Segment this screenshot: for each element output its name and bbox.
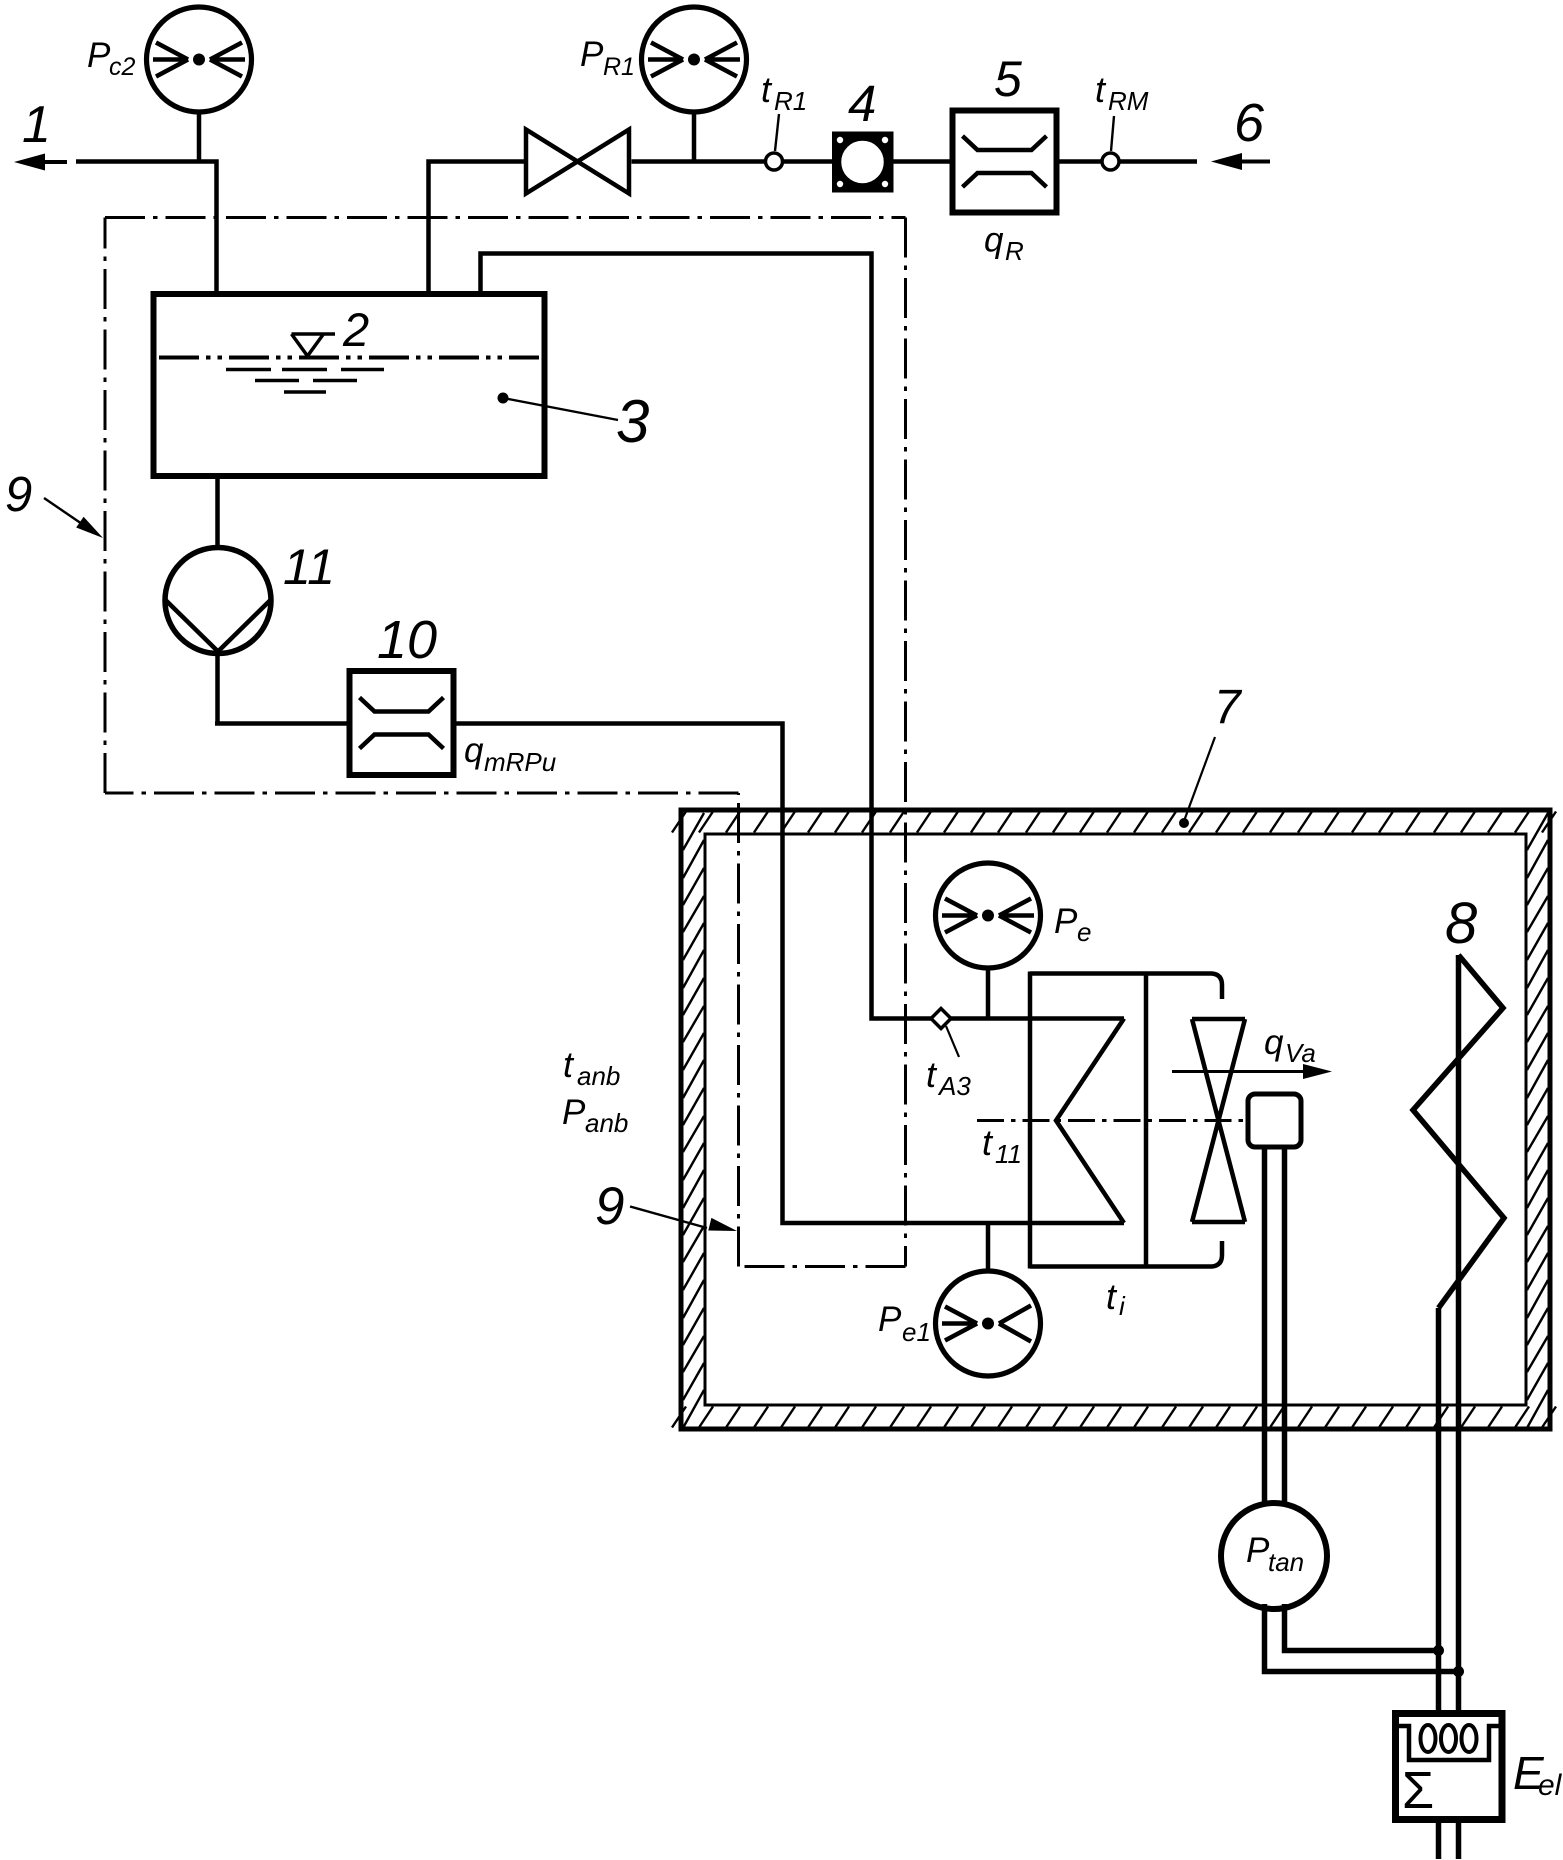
temperature sensor tA3 — [946, 1026, 959, 1057]
water surface marks — [226, 370, 384, 393]
valve — [526, 130, 629, 194]
svg-text:9: 9 — [5, 468, 32, 522]
tank 3 — [154, 294, 545, 476]
svg-text:R1: R1 — [774, 86, 807, 116]
svg-text:q: q — [984, 221, 1004, 260]
pressure gauge PR1 — [692, 110, 697, 162]
svg-text:c2: c2 — [109, 53, 136, 81]
svg-text:9: 9 — [595, 1177, 624, 1236]
svg-text:11: 11 — [283, 539, 335, 595]
pressure gauge Pe — [986, 966, 991, 1019]
wires fan motor leads — [1262, 1147, 1268, 1503]
temperature sensor tR1 — [775, 114, 779, 151]
pump 11 — [215, 476, 220, 549]
boundary 9 dash-dot enclosure — [105, 218, 906, 1267]
svg-text:A3: A3 — [937, 1071, 971, 1101]
component 5 flow meter qR — [953, 111, 1057, 213]
label 3 with leader — [498, 393, 509, 404]
svg-text:1: 1 — [22, 96, 51, 154]
arrow qVa — [1172, 1070, 1307, 1073]
svg-text:P: P — [87, 36, 111, 75]
svg-text:Σ: Σ — [1402, 1762, 1434, 1820]
svg-text:2: 2 — [342, 303, 369, 356]
svg-text:6: 6 — [1234, 93, 1265, 153]
svg-text:Va: Va — [1285, 1038, 1316, 1068]
svg-text:el: el — [1538, 1769, 1563, 1802]
svg-text:e: e — [1077, 917, 1091, 947]
junction dots — [1433, 1645, 1444, 1656]
heater 8 — [1413, 955, 1504, 1308]
arrow inlet 6 — [1211, 153, 1242, 170]
wattmeter Ptan — [1221, 1503, 1327, 1609]
svg-text:P: P — [580, 35, 604, 74]
svg-text:R1: R1 — [603, 53, 635, 81]
wire pipe tank to chamber evaporator — [481, 254, 1125, 1019]
evaporator coil chevron — [1056, 1019, 1124, 1224]
flow meter 10 qmRPu — [350, 671, 454, 775]
svg-text:7: 7 — [1214, 681, 1243, 734]
svg-text:R: R — [1005, 236, 1024, 266]
arrow outlet 1 — [14, 154, 45, 171]
wire valve to component 4 — [632, 159, 837, 164]
pressure gauge Pe1 — [986, 1223, 991, 1272]
svg-text:P: P — [1246, 1531, 1270, 1570]
level symbol — [292, 334, 336, 356]
svg-text:mRPu: mRPu — [484, 747, 556, 777]
chamber 7 hatched wall — [681, 810, 1550, 1429]
temperature sensor tRM — [1111, 116, 1114, 151]
evaporator duct — [1030, 972, 1146, 1269]
wire component 4 to component 5 — [891, 159, 954, 164]
svg-text:4: 4 — [848, 75, 876, 132]
svg-text:e1: e1 — [902, 1317, 931, 1347]
svg-text:anb: anb — [577, 1061, 620, 1091]
svg-text:P: P — [1054, 902, 1078, 941]
pressure gauge Pc2 — [197, 110, 202, 162]
svg-text:3: 3 — [616, 388, 649, 455]
svg-text:5: 5 — [994, 51, 1022, 107]
wire component 5 to inlet 6 — [1056, 159, 1197, 164]
wires Eel leads — [1436, 1820, 1442, 1860]
svg-text:P: P — [562, 1093, 586, 1132]
svg-text:10: 10 — [377, 610, 437, 670]
liquid level line 2 — [159, 356, 539, 360]
wire flow meter 10 to chamber evaporator — [452, 724, 1124, 1224]
svg-text:P: P — [878, 1300, 902, 1339]
wires Ptan connections — [1265, 1604, 1459, 1672]
svg-text:tan: tan — [1268, 1547, 1304, 1577]
wire pipe tank to valve line — [429, 162, 526, 297]
fan — [1192, 1019, 1245, 1222]
svg-text:q: q — [1264, 1023, 1284, 1062]
wire pump to flow meter 10 — [215, 721, 351, 726]
svg-text:anb: anb — [585, 1108, 628, 1138]
component 4 meter — [835, 134, 892, 190]
wire pipe to outlet 1 — [76, 162, 217, 297]
svg-text:RM: RM — [1108, 86, 1149, 116]
svg-text:q: q — [464, 731, 484, 770]
centerline t11 — [977, 1119, 1248, 1122]
fan motor — [1248, 1094, 1301, 1147]
svg-text:8: 8 — [1445, 891, 1477, 956]
svg-text:11: 11 — [995, 1139, 1022, 1169]
energy meter Eel — [1396, 1714, 1503, 1820]
